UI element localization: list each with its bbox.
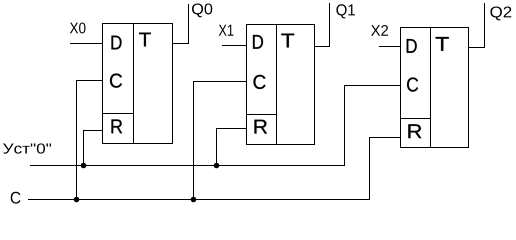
pin label C of DD1 [110,74,122,88]
wire X2 to DD3 D input [379,46,401,48]
function label T of DD3 [436,37,449,51]
wire X1 to DD2 D input [222,45,247,47]
node Q0 label [192,3,212,17]
junction dot DD1-C / clock bus [74,197,80,203]
wire DD3 output to node Q2 [469,3,485,48]
wire reset bus Уст"0" to DD3 C input [30,86,401,166]
pin label R of DD2 [254,120,267,134]
wire DD2 R input to reset bus [217,129,247,166]
node X2 label [371,25,388,36]
pin label R of DD1 [112,119,123,133]
pin label D of DD2 [253,35,263,49]
flip-flop DD2 body (T-trigger, fields D/C/R) [247,25,315,145]
pin label R of DD3 [408,124,421,138]
net label Уст"0" (reset) [3,143,51,153]
node X0 label [70,22,86,33]
wire DD2 output to node Q1 [315,3,330,47]
flip-flop DD1 body (T-trigger, fields D/C/R) [103,24,173,144]
function label T of DD2 [281,34,294,48]
pin label C of DD3 [407,77,418,91]
pin label D of DD3 [407,39,417,53]
node Q2 label [490,6,511,20]
function label T of DD1 [139,33,151,47]
wire DD1 C input to clock bus [77,81,103,200]
wire X0 to DD1 D input [70,43,103,45]
pin label C of DD2 [254,75,266,89]
flip-flop DD3 body (T-trigger, fields D/C/R) [401,28,469,148]
wire DD1 R input to reset bus [84,131,103,166]
net label C (clock) [11,192,21,204]
junction dot DD1-R / reset bus [81,163,87,169]
junction dot DD2-C / clock bus [191,197,197,203]
wire clock bus C to DD3 R input [28,138,401,200]
node X1 label [219,25,234,36]
node Q1 label [336,4,355,18]
wire DD1 output to node Q0 [173,4,189,44]
junction dot DD2-R / reset bus [214,163,220,169]
pin label D of DD1 [112,36,122,50]
wire DD2 C input to clock bus [194,82,247,200]
